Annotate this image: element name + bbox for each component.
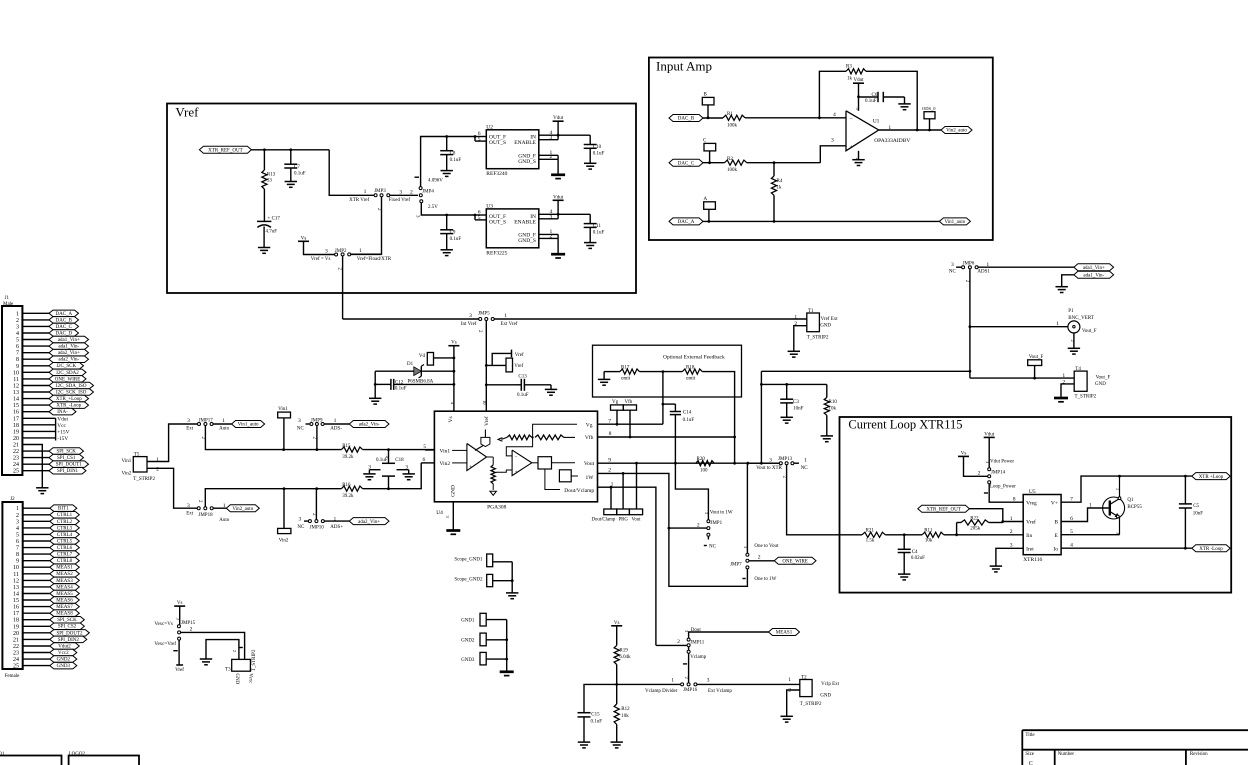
svg-text:Iret: Iret bbox=[1026, 546, 1034, 552]
svg-text:REF3240: REF3240 bbox=[486, 171, 507, 177]
svg-text:T2: T2 bbox=[801, 675, 807, 680]
svg-text:Vexc: Vexc bbox=[247, 673, 252, 684]
svg-text:MEAS8: MEAS8 bbox=[56, 612, 73, 617]
svg-text:3: 3 bbox=[399, 189, 402, 195]
wire DAC_B to R1 bbox=[703, 116, 723, 119]
svg-text:INA-: INA- bbox=[57, 410, 68, 415]
wire PGA pin9 Vout row bbox=[598, 457, 781, 464]
svg-text:0.1uF: 0.1uF bbox=[294, 171, 306, 176]
svg-text:XTR -Loop: XTR -Loop bbox=[1199, 547, 1223, 552]
junction JMP10 riser bbox=[315, 487, 318, 490]
wire JMP4 down 2.5V bbox=[414, 203, 446, 218]
svg-text:C15: C15 bbox=[591, 713, 600, 718]
svg-text:JMP17: JMP17 bbox=[199, 418, 214, 423]
svg-text:0.02uF: 0.02uF bbox=[911, 556, 925, 561]
ground below U3 bbox=[551, 254, 565, 258]
svg-text:ada2_Vin-: ada2_Vin- bbox=[359, 423, 380, 428]
wire to P1 bbox=[970, 321, 1068, 327]
svg-text:ENABLE: ENABLE bbox=[514, 140, 536, 146]
ground below T4 bbox=[1054, 398, 1068, 402]
svg-text:Optional External Feedback: Optional External Feedback bbox=[663, 354, 725, 360]
svg-text:Vclamp Divider: Vclamp Divider bbox=[645, 689, 678, 694]
ground below C17 bbox=[258, 248, 270, 254]
resistor R18 bbox=[662, 366, 703, 382]
J1 pin 4 DAC_D bbox=[16, 330, 79, 337]
svg-text:JMP13: JMP13 bbox=[778, 457, 793, 462]
svg-text:CTRL7: CTRL7 bbox=[57, 553, 73, 558]
wire XTR_REF_OUT to corner bbox=[251, 149, 329, 151]
capacitor C11 bbox=[584, 214, 605, 242]
svg-text:5: 5 bbox=[1070, 529, 1073, 535]
jumper JMP11 bbox=[677, 628, 707, 660]
svg-text:SPI_DOUT1: SPI_DOUT1 bbox=[56, 463, 83, 468]
svg-text:6.04k: 6.04k bbox=[619, 655, 631, 660]
svg-text:ada2_Vin+: ada2_Vin+ bbox=[58, 351, 80, 356]
svg-text:25: 25 bbox=[13, 469, 19, 475]
svg-text:+: + bbox=[515, 470, 518, 475]
svg-text:Vs: Vs bbox=[448, 416, 454, 422]
svg-text:Vref: Vref bbox=[175, 105, 199, 120]
wire JMP4 up 4.096V bbox=[415, 137, 447, 187]
ground right of C6 bbox=[898, 104, 910, 110]
svg-text:Vout: Vout bbox=[584, 461, 595, 467]
svg-text:Number: Number bbox=[1058, 752, 1075, 757]
svg-text:10k: 10k bbox=[829, 406, 837, 411]
net flag ONE_WIRE bbox=[774, 557, 816, 564]
svg-text:I2C_SCK_ISO: I2C_SCK_ISO bbox=[56, 391, 87, 396]
svg-text:XTR_REF_OUT: XTR_REF_OUT bbox=[208, 149, 242, 154]
svg-text:Vexc=Vs: Vexc=Vs bbox=[154, 622, 172, 627]
header C bbox=[703, 138, 716, 162]
IC U4 PGA308 body bbox=[434, 411, 597, 518]
resistor R21 bbox=[862, 529, 885, 544]
svg-text:JMP18: JMP18 bbox=[198, 513, 213, 518]
svg-text:R11: R11 bbox=[924, 529, 933, 534]
svg-text:R13: R13 bbox=[267, 173, 276, 178]
svg-text:DAC_D: DAC_D bbox=[55, 331, 72, 336]
svg-text:14: 14 bbox=[13, 397, 19, 403]
power Vdut above U3 bbox=[553, 195, 564, 214]
svg-text:JMP15: JMP15 bbox=[181, 621, 196, 626]
capacitor C14 bbox=[663, 404, 694, 465]
svg-text:10: 10 bbox=[13, 565, 19, 571]
svg-text:I2C_SDA_ISO: I2C_SDA_ISO bbox=[56, 384, 87, 389]
wire T4 pin2 to ground bbox=[1061, 384, 1074, 398]
ground right of C13 bbox=[545, 385, 557, 395]
svg-text:Vin2_auto: Vin2_auto bbox=[232, 507, 253, 512]
wire DAC_C to R2 bbox=[703, 161, 725, 164]
svg-text:Vdut: Vdut bbox=[57, 416, 68, 422]
svg-text:ADS+: ADS+ bbox=[330, 525, 343, 530]
ground below R17 input bbox=[598, 372, 610, 386]
svg-text:Current Loop XTR115: Current Loop XTR115 bbox=[848, 418, 962, 432]
svg-text:NC: NC bbox=[297, 525, 305, 530]
svg-text:ada1_Vin+: ada1_Vin+ bbox=[58, 338, 80, 343]
U3 gnd pins bbox=[539, 229, 558, 254]
ground below C3 bbox=[781, 417, 793, 423]
svg-text:OUT_S: OUT_S bbox=[489, 140, 506, 146]
resistor R16 bbox=[341, 483, 388, 499]
svg-text:13: 13 bbox=[13, 390, 19, 396]
U4 internal feedback tag bbox=[475, 430, 490, 451]
P1 shield to ground bbox=[1070, 333, 1075, 348]
svg-text:JMP4: JMP4 bbox=[422, 190, 434, 195]
J2 pin 4 CTRL3 bbox=[16, 525, 79, 532]
svg-text:ada1_Vin-: ada1_Vin- bbox=[58, 345, 79, 350]
svg-text:+: + bbox=[469, 465, 472, 470]
capacitor C3 bbox=[780, 384, 803, 417]
J1 pin 13 I2C_SCK_ISO bbox=[13, 389, 94, 396]
J1 pin 6 ada1_Vin- bbox=[16, 343, 89, 350]
svg-text:15: 15 bbox=[13, 598, 19, 604]
svg-text:U5: U5 bbox=[1029, 489, 1036, 495]
wire scope gnd bus bbox=[511, 562, 514, 593]
resistor R22 bbox=[955, 516, 1003, 536]
svg-text:NC: NC bbox=[949, 270, 957, 275]
svg-text:7: 7 bbox=[16, 351, 19, 357]
svg-text:Vdut Power: Vdut Power bbox=[990, 460, 1014, 465]
resistor R2 bbox=[725, 157, 747, 173]
jumper JMP16 bbox=[645, 677, 732, 694]
net flag Vin1_auto bbox=[232, 421, 265, 428]
svg-text:2: 2 bbox=[550, 233, 553, 239]
U3 pin4 pin3 wires bbox=[539, 209, 590, 220]
svg-text:T_STRIP2: T_STRIP2 bbox=[807, 335, 829, 340]
svg-text:Vin1: Vin1 bbox=[440, 449, 451, 455]
wire JMP3 center down to JMP2 bbox=[351, 197, 382, 254]
svg-text:CTRL2: CTRL2 bbox=[57, 520, 73, 525]
svg-text:Vout_F: Vout_F bbox=[1082, 329, 1097, 334]
svg-text:ada2_Vin+: ada2_Vin+ bbox=[358, 520, 380, 525]
svg-text:19: 19 bbox=[13, 624, 19, 630]
U4 pin6 stub bbox=[421, 457, 434, 463]
svg-text:5: 5 bbox=[16, 338, 19, 344]
wire Vout_F row to T4 bbox=[970, 373, 1074, 380]
svg-text:C10: C10 bbox=[593, 145, 602, 150]
J1 pin 15 XTR_-Loop bbox=[13, 402, 89, 409]
svg-text:DAC_C: DAC_C bbox=[56, 325, 73, 330]
svg-text:U1: U1 bbox=[873, 118, 880, 124]
svg-text:1: 1 bbox=[364, 189, 367, 195]
svg-text:CTRL3: CTRL3 bbox=[57, 526, 73, 531]
J2 pin 5 CTRL4 bbox=[16, 531, 79, 538]
wire JMP9 center down bbox=[316, 426, 318, 450]
svg-text:JMP1: JMP1 bbox=[710, 521, 722, 526]
wire JMP9 to ada2_Vin- flag bbox=[324, 423, 349, 425]
wire JMP2 center down to JMP5 row bbox=[342, 256, 344, 319]
svg-text:NC: NC bbox=[709, 545, 717, 550]
svg-text:0.1uF: 0.1uF bbox=[591, 720, 603, 725]
svg-text:2: 2 bbox=[190, 627, 193, 633]
J2 pin 17 MEAS8 bbox=[13, 610, 79, 617]
svg-text:1: 1 bbox=[794, 314, 797, 320]
svg-text:SPI_DIN1: SPI_DIN1 bbox=[57, 469, 79, 474]
U4 internal amp2 input wires bbox=[506, 437, 532, 456]
wire JMP5 center down to PGA pin10 bbox=[482, 321, 487, 412]
svg-text:GND2: GND2 bbox=[461, 639, 475, 644]
ground below J1 bbox=[36, 488, 48, 494]
svg-text:3: 3 bbox=[1010, 543, 1013, 549]
svg-text:Vref: Vref bbox=[483, 416, 490, 426]
svg-text:T_STRIP2: T_STRIP2 bbox=[133, 477, 155, 482]
svg-text:C12: C12 bbox=[395, 380, 404, 385]
jumper JMP6 bbox=[949, 262, 991, 283]
wire C3 R10 node bbox=[760, 371, 827, 463]
U4 internal output amp bbox=[512, 450, 532, 476]
svg-text:0.1uF: 0.1uF bbox=[517, 393, 529, 398]
wire PGA pin1 Dout row bbox=[598, 481, 656, 645]
svg-text:SPI_DOUT2: SPI_DOUT2 bbox=[56, 631, 83, 636]
svg-text:DAC_A: DAC_A bbox=[55, 312, 72, 317]
svg-text:18: 18 bbox=[13, 423, 19, 429]
IC U3 REF3225 bbox=[486, 204, 539, 257]
wire divider to JMP16 bbox=[617, 683, 681, 685]
svg-text:MEAS1: MEAS1 bbox=[776, 631, 793, 636]
power Vs in loop bbox=[958, 451, 988, 476]
J2 pin 2 CTRL1 bbox=[16, 512, 79, 519]
svg-text:CTRL1: CTRL1 bbox=[57, 513, 73, 518]
svg-text:Vreg: Vreg bbox=[1026, 500, 1037, 506]
svg-text:20: 20 bbox=[13, 631, 19, 637]
svg-text:JMP16: JMP16 bbox=[683, 688, 698, 693]
capacitor C7 bbox=[284, 150, 305, 182]
svg-text:3: 3 bbox=[187, 418, 190, 424]
svg-text:J1: J1 bbox=[5, 296, 10, 301]
U4 internal block 2 bbox=[559, 470, 578, 482]
wire JMP2 right up bbox=[351, 253, 382, 255]
svg-text:0.1uF: 0.1uF bbox=[395, 387, 407, 392]
svg-text:DAC_B: DAC_B bbox=[678, 117, 695, 122]
wire loop+ row bbox=[1118, 475, 1192, 478]
svg-text:R22: R22 bbox=[970, 516, 979, 521]
wire XTR_REF_OUT to U5 pin1 bbox=[969, 509, 1023, 523]
svg-text:3: 3 bbox=[16, 519, 19, 525]
resistor R19 bbox=[614, 645, 631, 684]
svg-text:17: 17 bbox=[13, 416, 19, 422]
jumper JMP17 bbox=[186, 418, 229, 439]
svg-text:205k: 205k bbox=[970, 527, 981, 532]
svg-text:C9: C9 bbox=[450, 231, 456, 236]
wire Vout row down to JMP7 top bbox=[746, 463, 748, 553]
svg-text:Auto: Auto bbox=[219, 518, 230, 523]
header Vd bbox=[419, 353, 454, 366]
svg-text:Iin: Iin bbox=[1026, 533, 1032, 539]
svg-text:1k: 1k bbox=[777, 186, 783, 191]
svg-text:4: 4 bbox=[1070, 543, 1073, 549]
svg-text:SPI_DIN2: SPI_DIN2 bbox=[58, 638, 80, 643]
svg-text:9: 9 bbox=[16, 559, 19, 565]
svg-text:12: 12 bbox=[13, 384, 19, 390]
capacitor C8 bbox=[440, 137, 461, 171]
svg-text:17: 17 bbox=[13, 611, 19, 617]
svg-text:Input Amp: Input Amp bbox=[656, 59, 712, 74]
wire corner down to JMP3 bbox=[329, 150, 374, 196]
wire JMP17 center to Vin1 row bbox=[205, 426, 341, 450]
svg-text:1: 1 bbox=[222, 418, 225, 424]
svg-text:JMP6: JMP6 bbox=[963, 262, 975, 267]
header Vfb bbox=[623, 400, 636, 438]
junction Vd header bbox=[453, 357, 456, 360]
wire Vout row to JMP1 bbox=[675, 463, 708, 519]
svg-text:2: 2 bbox=[758, 555, 761, 561]
svg-text:JMP9: JMP9 bbox=[311, 418, 323, 423]
svg-text:Vin2_auto: Vin2_auto bbox=[946, 129, 967, 134]
svg-text:R15: R15 bbox=[342, 444, 351, 449]
svg-text:ADS-: ADS- bbox=[330, 427, 342, 432]
svg-text:GND3: GND3 bbox=[57, 664, 71, 669]
svg-text:XTR_REF_OUT: XTR_REF_OUT bbox=[926, 507, 960, 512]
J2 pin 20 SPI_DOUT2 bbox=[13, 630, 89, 637]
svg-text:P1: P1 bbox=[1068, 309, 1074, 314]
capacitor C13 bbox=[486, 374, 551, 397]
svg-text:T_STRIP2: T_STRIP2 bbox=[1075, 395, 1097, 400]
svg-text:16: 16 bbox=[13, 410, 19, 416]
svg-text:SPI_SCK: SPI_SCK bbox=[56, 450, 76, 455]
J2 pin 18 SPI_SCK bbox=[13, 617, 84, 624]
J1 pin 2 DAC_B bbox=[16, 317, 79, 324]
net flag DAC_B bbox=[669, 115, 703, 122]
wire JMP11 to JMP16 bbox=[683, 653, 689, 682]
svg-text:10: 10 bbox=[482, 400, 487, 405]
J2 pin 23 Vcc2 bbox=[13, 649, 77, 656]
header B bbox=[702, 93, 714, 118]
svg-text:5: 5 bbox=[478, 215, 481, 221]
ground below C9 bbox=[441, 250, 453, 256]
wire Vout to XTR row bbox=[749, 462, 780, 464]
svg-text:DAC_B: DAC_B bbox=[56, 318, 73, 323]
net flag Vin1_auto (Input Amp) bbox=[939, 218, 970, 225]
wire Vin2 row to pin6 bbox=[389, 463, 422, 489]
svg-text:0.1uF: 0.1uF bbox=[450, 158, 462, 163]
svg-text:24: 24 bbox=[13, 462, 19, 468]
capacitor C15 bbox=[578, 713, 603, 742]
wire D1 C12 left leg bbox=[374, 371, 377, 398]
svg-text:GND: GND bbox=[1095, 382, 1106, 387]
J2 pin 3 CTRL2 bbox=[16, 518, 79, 525]
resistor R17 bbox=[604, 366, 663, 382]
J1 pins17-20 bus bar bbox=[55, 418, 57, 440]
svg-text:7: 7 bbox=[16, 546, 19, 552]
jumper JMP4 bbox=[419, 187, 434, 203]
svg-text:A: A bbox=[704, 197, 708, 202]
svg-text:XTR_+Loop: XTR_+Loop bbox=[56, 397, 82, 402]
wire 1W row down to JMP7 bbox=[669, 528, 748, 586]
svg-text:0.1uF: 0.1uF bbox=[683, 418, 695, 423]
power Vref flag bbox=[492, 350, 524, 366]
power Vdut in loop bbox=[984, 432, 995, 467]
svg-text:1k: 1k bbox=[847, 77, 853, 82]
wire U5 pin4 Io row bbox=[1061, 543, 1192, 550]
J1 pin 19 +15V bbox=[13, 429, 70, 435]
U4 internal gain resistor 2 bbox=[535, 435, 575, 440]
svg-text:6: 6 bbox=[1070, 516, 1073, 522]
net flag DAC_C bbox=[669, 159, 703, 166]
svg-text:omit: omit bbox=[686, 376, 696, 381]
jumper JMP18 bbox=[186, 500, 230, 523]
svg-text:10: 10 bbox=[13, 370, 19, 376]
svg-text:Vin2: Vin2 bbox=[279, 538, 289, 543]
svg-text:NC: NC bbox=[801, 466, 809, 471]
resistor R10 bbox=[824, 384, 837, 436]
svg-text:13: 13 bbox=[13, 585, 19, 591]
svg-text:GND_S: GND_S bbox=[518, 159, 536, 165]
U2 pin4 pin3 wires bbox=[539, 130, 590, 141]
svg-text:3: 3 bbox=[951, 262, 954, 268]
wire JMP13 center down to R21 bbox=[787, 465, 862, 535]
power Vs above JMP15 bbox=[174, 601, 185, 625]
svg-text:Vcc: Vcc bbox=[57, 423, 66, 429]
ground below C8 bbox=[441, 171, 453, 177]
svg-text:ADS1: ADS1 bbox=[977, 270, 990, 275]
svg-text:Female: Female bbox=[5, 674, 20, 679]
svg-text:Vout: Vout bbox=[632, 517, 642, 522]
svg-text:Dout/Clamp: Dout/Clamp bbox=[592, 517, 616, 522]
svg-text:Scope_GND2: Scope_GND2 bbox=[454, 578, 483, 583]
svg-text:ODS_0: ODS_0 bbox=[922, 106, 936, 111]
wire R2 to opamp pin3 bbox=[747, 146, 846, 164]
resistor R13 bbox=[262, 150, 276, 222]
junction Vin2 testpoint bbox=[283, 487, 286, 490]
svg-text:0.1uF: 0.1uF bbox=[593, 152, 605, 157]
svg-text:T5: T5 bbox=[134, 452, 140, 457]
wire JMP11 to MEAS1 flag bbox=[689, 632, 769, 638]
resistor R3 feedback bbox=[819, 64, 917, 130]
net flag Vin2_auto bbox=[226, 505, 259, 512]
wire U5 pin6 to Q1 base bbox=[1061, 502, 1109, 522]
ground below C12 bbox=[369, 398, 381, 404]
svg-text:Vs: Vs bbox=[614, 621, 620, 626]
svg-text:ada1_Vin-: ada1_Vin- bbox=[1083, 274, 1104, 279]
svg-text:2: 2 bbox=[156, 466, 159, 472]
J1 pin 25 SPI_DIN1 bbox=[13, 468, 86, 475]
J1 pin 3 DAC_C bbox=[16, 323, 79, 330]
svg-text:4.096V: 4.096V bbox=[428, 179, 443, 184]
junction Vref header bbox=[485, 364, 488, 367]
svg-text:MEAS3: MEAS3 bbox=[56, 579, 73, 584]
svg-text:0.1uF: 0.1uF bbox=[376, 458, 388, 463]
ground below U5 pin3 bbox=[990, 566, 1002, 572]
svg-text:Vclamp: Vclamp bbox=[690, 655, 706, 660]
svg-text:D1: D1 bbox=[407, 362, 414, 367]
J1 pin 22 SPI_SCK bbox=[13, 448, 84, 455]
svg-text:MEAS2: MEAS2 bbox=[56, 572, 73, 577]
svg-text:Male: Male bbox=[3, 302, 14, 307]
svg-text:GND: GND bbox=[820, 693, 831, 698]
net flag XTR_REF_OUT (Vref block) bbox=[199, 146, 251, 153]
svg-text:BCP55: BCP55 bbox=[1127, 505, 1142, 510]
svg-text:8: 8 bbox=[16, 552, 19, 558]
svg-text:39.2k: 39.2k bbox=[342, 494, 354, 499]
svg-text:JMP11: JMP11 bbox=[690, 641, 704, 646]
svg-text:20: 20 bbox=[13, 436, 19, 442]
junction C12 bbox=[453, 383, 456, 386]
svg-text:C13: C13 bbox=[518, 374, 527, 379]
wire JMP7 to ONE_WIRE flag bbox=[749, 560, 774, 562]
svg-text:Auto: Auto bbox=[219, 427, 230, 432]
svg-text:Vs: Vs bbox=[177, 601, 183, 606]
svg-text:2.5V: 2.5V bbox=[428, 205, 438, 210]
svg-text:1: 1 bbox=[359, 248, 362, 254]
svg-text:10nF: 10nF bbox=[793, 406, 804, 411]
resistor R12 bbox=[614, 684, 630, 742]
svg-text:R21: R21 bbox=[866, 529, 875, 534]
header A bbox=[704, 197, 716, 222]
svg-text:SPI_CS1: SPI_CS1 bbox=[57, 456, 76, 461]
svg-text:Dout/Vclamp: Dout/Vclamp bbox=[564, 488, 594, 494]
svg-text:2: 2 bbox=[410, 189, 413, 195]
svg-text:R20: R20 bbox=[697, 457, 706, 462]
svg-text:MEAS7: MEAS7 bbox=[56, 605, 73, 610]
